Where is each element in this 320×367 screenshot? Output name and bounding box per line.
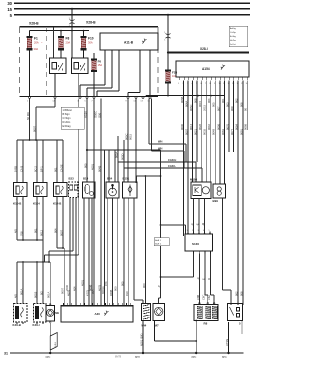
wire pin11 down (135, 99, 137, 183)
ECU A154 pin 9 (215, 77, 217, 80)
svg-text:1=BKout: 1=BKout (63, 109, 73, 112)
branch y176 to B151 (137, 175, 161, 177)
component B33 pins (70, 185, 73, 190)
svg-text:4: 4 (203, 230, 204, 232)
svg-text:8PC: 8PC (222, 356, 227, 359)
node y140 a (29, 139, 31, 141)
svg-text:M9: M9 (55, 311, 59, 315)
svg-text:D=Alim: D=Alim (63, 121, 71, 124)
wire ECU pin 5 down (201, 81, 203, 169)
fusebox pin 14 (54, 96, 56, 98)
component K46-B stubs (16, 322, 18, 324)
svg-text:3: 3 (198, 230, 199, 232)
ground bus 31 (10, 352, 244, 354)
svg-text:B151: B151 (123, 177, 130, 181)
ground pennant (50, 333, 57, 351)
svg-text:CAOE: CAOE (59, 164, 63, 172)
fusebox top edge (20, 26, 159, 28)
svg-text:908: 908 (194, 98, 198, 103)
svg-text:904A: 904A (184, 101, 188, 107)
wire ECU pin 2 down (187, 81, 189, 235)
ground node R8 (195, 352, 197, 354)
svg-text:4/0: 4/0 (13, 294, 17, 298)
connector X28-B symbol (70, 20, 75, 24)
svg-text:9035: 9035 (203, 129, 207, 135)
wire x72 to relay T2 (71, 27, 73, 58)
svg-text:←: ← (41, 40, 44, 44)
svg-text:F1: F1 (34, 37, 38, 41)
svg-text:J=Cnt: J=Cnt (230, 43, 236, 46)
wire K46 drop 3 (36, 262, 38, 304)
svg-text:905D: 905D (120, 154, 124, 160)
svg-text:904: 904 (90, 289, 94, 294)
glow element 1 (197, 306, 202, 319)
wire T2out down (86, 99, 88, 150)
wire x160 drop (160, 150, 162, 225)
svg-text:30: 30 (7, 1, 12, 6)
wire K10-I stub R (42, 197, 44, 241)
svg-text:910: 910 (125, 291, 129, 296)
fusebox pin 5 (86, 96, 88, 98)
svg-text:4001: 4001 (90, 164, 94, 170)
svg-text:X28-I: X28-I (200, 47, 208, 51)
fusebox right edge (dashed) (157, 27, 159, 97)
glow element pin 2 (207, 302, 209, 304)
wire CAN join2 (183, 151, 185, 168)
wire glow 3 (210, 253, 212, 295)
svg-text:CAN H: CAN H (168, 158, 176, 162)
component B151 box (123, 182, 138, 198)
connector A30 pin 12 (109, 303, 111, 305)
relay T1 box (50, 58, 67, 74)
svg-text:A11-B: A11-B (124, 41, 134, 45)
svg-text:9 RB: 9 RB (13, 166, 17, 172)
wire K10-B stub R (22, 197, 24, 241)
ECU A154 pin 6 (201, 77, 203, 80)
svg-text:9007: 9007 (32, 126, 36, 132)
wire pin9 down (127, 99, 129, 183)
svg-text:9063: 9063 (221, 129, 225, 135)
ECU A154 pin 15 (242, 77, 244, 80)
svg-text:A=Dig: A=Dig (230, 27, 237, 30)
ground node 8PH (142, 352, 144, 354)
wire R8 ground (195, 321, 197, 354)
svg-text:9028: 9028 (198, 124, 202, 130)
wire A11-B pin2 (111, 50, 113, 88)
ground node 8PC (227, 352, 229, 354)
dist line y140 (17, 139, 63, 141)
ECU A154 pin 10 (219, 77, 221, 80)
wire M104 out2 (198, 199, 200, 235)
svg-text:1451: 1451 (55, 341, 57, 347)
wire bus 50 (14, 14, 250, 16)
run Hc y251 (49, 250, 73, 252)
svg-text:9/2: 9/2 (39, 291, 43, 295)
wire mid drop 1 (69, 198, 71, 306)
glow element pin 1 (199, 302, 201, 304)
wire mid drop 7 (112, 198, 114, 305)
wire M9 ground (49, 323, 51, 353)
svg-text:C8A: C8A (207, 295, 211, 300)
wire F23 out (167, 84, 169, 96)
wire dist y150 (87, 149, 161, 151)
connector X28-I symbol (166, 34, 171, 39)
splice S130 top pin 4 (204, 232, 206, 234)
connector A30 pin 8 (92, 303, 94, 305)
svg-text:B64: B64 (107, 177, 113, 181)
svg-text:R8: R8 (204, 322, 208, 326)
svg-text:CAN L: CAN L (168, 164, 176, 168)
svg-text:A=B 1: A=B 1 (155, 239, 162, 242)
wire K10 feed 1 (16, 140, 18, 183)
svg-text:9015: 9015 (198, 101, 202, 107)
svg-text:9077: 9077 (230, 129, 234, 135)
wire CAN L to M104 (201, 168, 203, 182)
wire CAN feed H1 (148, 99, 150, 144)
svg-text:940B: 940B (109, 290, 113, 296)
svg-text:9007: 9007 (184, 129, 188, 135)
relay T1 coil (52, 63, 57, 70)
svg-text:905: 905 (120, 281, 124, 286)
wire ECU pin 9 down (219, 81, 221, 185)
svg-text:2: 2 (192, 230, 193, 232)
wire T1 out (54, 74, 56, 97)
wire K10 feed 2 (22, 140, 24, 183)
ignition glyph A154 (221, 65, 225, 70)
component B99 box (213, 184, 226, 198)
wire ECU pin 1 down (183, 81, 185, 237)
component K46-I stubs (36, 322, 38, 324)
svg-text:4001A: 4001A (101, 286, 105, 294)
wire pin15 down (100, 99, 102, 305)
ground node 6PC (49, 352, 51, 354)
relay T2 coil (74, 63, 79, 70)
wire K46 drop 4 (42, 262, 44, 304)
run Hb y248 (57, 247, 64, 249)
wire ECU pin 4 down (196, 81, 198, 163)
component B33 box (69, 182, 79, 198)
connector A30 pin 6 (84, 303, 86, 305)
svg-text:K46-I: K46-I (33, 323, 40, 327)
fusebox pin 11 (135, 96, 137, 98)
connector A30 box (61, 306, 133, 323)
svg-text:905C: 905C (189, 105, 193, 111)
node y140 b (35, 139, 37, 141)
svg-text:8MT9: 8MT9 (115, 356, 122, 359)
svg-text:909: 909 (230, 106, 234, 111)
connector A30 pin 14 (117, 303, 119, 305)
wire K12-B stub R (62, 197, 64, 249)
wire M104 out1 (193, 199, 195, 235)
wire glow 1 (198, 253, 200, 304)
ignition switch glyph A11-B (142, 39, 146, 44)
wire F6out down (93, 99, 95, 305)
splice S130 top pin 2 (193, 232, 195, 234)
fuse F23 (166, 72, 170, 82)
wire K12 feed 6 (62, 140, 64, 183)
connector A30 pin 15 (121, 303, 123, 305)
splice S130 box (185, 234, 213, 251)
wire bus 15 (14, 8, 250, 10)
svg-text:CA B: CA B (19, 166, 23, 172)
fusebox bottom edge (20, 95, 159, 97)
wire M104 out3 (204, 199, 206, 235)
svg-text:20A: 20A (66, 40, 71, 44)
wire N70 ground (228, 322, 230, 353)
svg-text:9042: 9042 (207, 124, 211, 130)
svg-text:901A: 901A (19, 289, 23, 295)
wire K46 drop 2 (22, 262, 24, 304)
wire S130 to M7 (193, 253, 195, 277)
svg-text:A154: A154 (202, 67, 210, 71)
component M9 box (46, 306, 55, 322)
wire CAN H (118, 161, 196, 163)
connector A30 pin 1 (63, 303, 65, 305)
svg-text:H=Tac: H=Tac (230, 40, 236, 42)
connector A30 pin 3 (71, 303, 73, 305)
component K12-B box (54, 183, 68, 197)
wire mid drop 4 (88, 198, 90, 305)
wire ECU pin 13 down (237, 81, 239, 306)
component R8 box (194, 305, 218, 321)
svg-text:9098: 9098 (244, 124, 248, 130)
splice S130 bottom pin 1 (193, 251, 195, 253)
svg-text:B33: B33 (69, 177, 75, 181)
wire F1 to pin (29, 50, 31, 96)
wire B151 jog (133, 198, 135, 300)
wire ECU pin 7 down (210, 81, 212, 183)
svg-text:C=Dip: C=Dip (230, 32, 237, 34)
svg-text:30A: 30A (34, 47, 39, 51)
svg-text:4001: 4001 (80, 280, 84, 286)
wire mid drop 9 (123, 198, 125, 305)
ECU A154 pin 2 (183, 77, 185, 80)
svg-text:404: 404 (72, 286, 76, 291)
ECU A154 pin 14 (237, 77, 239, 80)
wire F1 top (29, 31, 31, 36)
component B14 inner (85, 185, 89, 194)
svg-text:905: 905 (83, 163, 87, 168)
component K10-I box (34, 183, 48, 197)
wire A11-B pin1 (104, 50, 106, 85)
svg-text:-E: -E (195, 223, 199, 226)
svg-text:708: 708 (19, 231, 23, 236)
wire CAN L left drop (123, 140, 125, 168)
wire K12 feed 5 (56, 140, 58, 183)
component B64 inner (109, 188, 117, 196)
wire mid drop 2 (75, 198, 77, 306)
legend box left (61, 107, 84, 129)
svg-text:9070: 9070 (225, 124, 229, 130)
svg-text:905C: 905C (124, 134, 128, 140)
svg-text:9014: 9014 (189, 124, 193, 130)
svg-text:C=Sign: C=Sign (63, 117, 72, 120)
node on bus 15 (71, 8, 73, 10)
svg-text:9084: 9084 (234, 124, 238, 130)
ECU A154 pin 4 (192, 77, 194, 80)
wire glow 2 (204, 253, 206, 295)
wire F8 top (60, 31, 62, 36)
wire mid drop 10 (128, 198, 130, 305)
svg-text:X28-B: X28-B (86, 21, 96, 25)
ECU A154 pin 16 (246, 77, 248, 80)
svg-text:8PH: 8PH (135, 356, 140, 359)
svg-text:903: 903 (225, 102, 229, 107)
relay T2 box (72, 58, 89, 74)
module A11-B box (100, 33, 158, 50)
svg-text:F23: F23 (172, 71, 178, 75)
wire bus 30 (14, 2, 250, 4)
svg-text:S130: S130 (192, 242, 199, 246)
wire K10-B stub L (16, 197, 18, 241)
connector A30 pin 7 (88, 303, 90, 305)
wire ECU pin 11 down (228, 81, 230, 153)
svg-text:9015: 9015 (128, 134, 132, 140)
wire ECU pin 12 down (233, 81, 235, 153)
wire K12-B stub L (56, 197, 58, 249)
fusebox pin 7 (93, 96, 95, 98)
svg-text:A30: A30 (95, 312, 101, 316)
component N70 box (228, 304, 243, 321)
svg-text:C8C: C8C (201, 295, 205, 300)
ECU A154 pin 8 (210, 77, 212, 80)
wire F8 to relay T1 (60, 50, 62, 58)
connector A30 top edge thick (61, 305, 133, 307)
svg-text:6PC: 6PC (46, 356, 51, 359)
ECU A154 pin 13 (233, 77, 235, 80)
ECU A154 pin 12 (228, 77, 230, 80)
interior junction line X28-I (168, 52, 249, 54)
svg-text:9049: 9049 (212, 129, 216, 135)
relay T2 contact (81, 63, 86, 71)
connector A30 pin 9 (96, 303, 98, 305)
svg-text:E=Diag: E=Diag (63, 125, 72, 128)
run Hd y255 (45, 254, 79, 256)
connector A30 pin 2 (67, 303, 69, 305)
wire N70 stub (241, 321, 243, 335)
svg-text:50 RN: 50 RN (26, 112, 30, 120)
splice S130 top pin 1 (187, 232, 189, 234)
svg-text:901: 901 (53, 167, 57, 172)
svg-text:15: 15 (7, 7, 12, 12)
svg-text:4078: 4078 (97, 285, 101, 291)
component K10-B box (14, 183, 28, 197)
svg-text:904: 904 (207, 98, 211, 103)
splice S130 top pin 3 (198, 232, 200, 234)
component K46-I box (34, 304, 47, 323)
legend box mid right (154, 238, 169, 246)
svg-text:8PC: 8PC (192, 356, 197, 359)
node on bus 50 (167, 14, 169, 16)
svg-text:-P: -P (157, 285, 161, 288)
fusebox pin 9 (127, 96, 129, 98)
connector A30 pin 10 (100, 303, 102, 305)
wire B99 out (222, 198, 224, 290)
svg-text:2000: 2000 (65, 285, 69, 291)
wire drop to fusebox (71, 9, 73, 27)
svg-text:B14: B14 (83, 177, 89, 181)
svg-text:R: R (207, 278, 211, 280)
svg-text:905B: 905B (180, 97, 184, 103)
svg-text:905: 905 (212, 102, 216, 107)
wire x104 drop (104, 150, 106, 305)
run Ha y240 (17, 239, 43, 241)
wire x64 to A30 (63, 248, 65, 305)
fusebox left edge (dashed) (19, 27, 21, 97)
wire K46 drop 1 (16, 262, 18, 304)
wire mid drop 6 (107, 198, 109, 305)
svg-text:900: 900 (142, 283, 146, 288)
ECU A154 pin 3 (188, 77, 190, 80)
wire x168 below X28-I (167, 53, 169, 70)
splice S130 bottom pin 4 (210, 251, 212, 253)
wire mid drop 8 (116, 198, 118, 305)
svg-text:9021: 9021 (194, 129, 198, 135)
wire CAN join1 (185, 144, 187, 162)
junction node x168 on X28-I (167, 51, 169, 53)
component Y44 inner (143, 305, 149, 306)
glow element pin 3 (213, 302, 215, 304)
fuse F10 (81, 38, 86, 49)
svg-text:B99: B99 (213, 199, 219, 203)
svg-text:31: 31 (4, 352, 8, 356)
component B14 box (83, 182, 96, 198)
wire T1out down (78, 99, 80, 255)
connector A30 pin 5 (79, 303, 81, 305)
wire K10 feed 4 (42, 140, 44, 183)
wire Y44 feed (144, 176, 146, 304)
wire CAN H to M104 (195, 162, 197, 182)
svg-text:B=R 2: B=R 2 (155, 243, 162, 245)
svg-text:M7: M7 (155, 324, 159, 328)
wire Y44 ground (142, 321, 144, 354)
wire F6 bottom (93, 72, 95, 96)
node x87 y150 (86, 149, 88, 151)
svg-text:901B: 901B (33, 292, 37, 298)
connector A30 pin 17 (130, 303, 132, 305)
wire pin14 down (54, 99, 56, 107)
svg-text:C8B: C8B (196, 295, 200, 300)
svg-text:Y44: Y44 (141, 324, 147, 328)
svg-text:90: 90 (244, 108, 248, 111)
svg-text:O50: O50 (97, 112, 101, 118)
svg-text:B:Sign: B:Sign (63, 113, 71, 116)
connector A30 pin 16 (126, 303, 128, 305)
svg-text:K46-B: K46-B (13, 323, 21, 327)
svg-text:901: 901 (33, 228, 37, 233)
wire M7 ground run (154, 321, 156, 342)
glow element 3 (212, 306, 217, 319)
wire internal bus to F10 (84, 30, 90, 32)
svg-text:F10: F10 (88, 37, 94, 41)
svg-text:F8: F8 (66, 37, 70, 41)
wire mid drop 5 (91, 198, 93, 305)
svg-text:30A: 30A (88, 40, 93, 44)
wire M7 feed (160, 225, 162, 298)
wire A11-B pin3 (118, 50, 120, 91)
svg-text:NO/1 (BK): NO/1 (BK) (139, 334, 143, 346)
fuse F1 (27, 38, 32, 49)
node internal bus x72 (71, 30, 73, 32)
wire F6 top (93, 53, 95, 59)
component M104 inner (193, 185, 202, 196)
wire CAN H left drop (117, 136, 119, 162)
svg-text:9C-2: 9C-2 (33, 166, 37, 172)
wire A11-B pin5 (149, 50, 151, 96)
wire pin1 down (29, 99, 31, 140)
svg-text:15A: 15A (98, 64, 103, 67)
wire mid drop 3 (83, 198, 85, 305)
